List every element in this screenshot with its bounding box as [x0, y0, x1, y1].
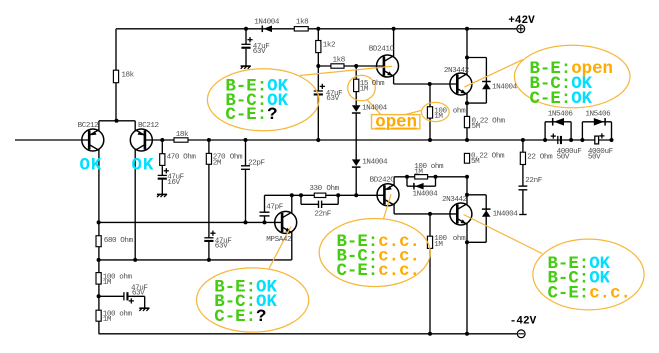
svg-text:1N4004: 1N4004	[493, 211, 519, 219]
svg-text:1M: 1M	[360, 86, 369, 94]
svg-text:1N4004: 1N4004	[413, 191, 439, 199]
svg-text:18k: 18k	[176, 131, 189, 139]
svg-text:OK: OK	[80, 157, 103, 176]
svg-text:-42V: -42V	[510, 315, 537, 327]
svg-text:OK: OK	[132, 157, 155, 176]
svg-text:BC212: BC212	[78, 122, 100, 130]
svg-text:22nF: 22nF	[314, 211, 331, 219]
svg-text:2N3442: 2N3442	[442, 196, 468, 204]
svg-text:Ohm: Ohm	[326, 185, 339, 193]
svg-text:63V: 63V	[215, 242, 228, 250]
svg-text:ohm: ohm	[453, 235, 466, 243]
svg-text:1M: 1M	[103, 279, 112, 287]
svg-text:63V: 63V	[253, 48, 266, 56]
svg-text:C-E:c.c.: C-E:c.c.	[548, 284, 632, 303]
svg-text:1k8: 1k8	[333, 56, 346, 64]
svg-text:680: 680	[104, 237, 117, 245]
svg-text:1N5406: 1N5406	[548, 111, 574, 119]
svg-text:22pF: 22pF	[248, 159, 265, 167]
svg-text:BC212: BC212	[138, 122, 160, 130]
svg-text:47pF: 47pF	[266, 204, 283, 212]
svg-text:C-E:?: C-E:?	[225, 106, 277, 125]
svg-text:5M: 5M	[471, 158, 480, 166]
svg-text:1k2: 1k2	[323, 41, 336, 49]
svg-text:1N4004: 1N4004	[362, 158, 388, 166]
svg-text:50V: 50V	[588, 153, 601, 161]
svg-text:1k8: 1k8	[296, 18, 309, 26]
svg-text:BD241C: BD241C	[369, 46, 395, 54]
svg-text:Ohm: Ohm	[540, 153, 553, 161]
svg-text:1M: 1M	[434, 113, 443, 121]
svg-text:open: open	[375, 114, 417, 133]
svg-text:330: 330	[309, 185, 322, 193]
svg-text:1M: 1M	[103, 316, 112, 324]
svg-text:63V: 63V	[326, 95, 339, 103]
svg-text:1M: 1M	[434, 241, 443, 249]
svg-text:BD242C: BD242C	[370, 177, 396, 185]
svg-text:Ohm: Ohm	[372, 80, 385, 88]
svg-text:Ohm: Ohm	[120, 237, 133, 245]
svg-text:1M: 1M	[414, 168, 423, 176]
svg-text:ohm: ohm	[453, 107, 466, 115]
svg-text:1N5406: 1N5406	[585, 111, 611, 119]
svg-text:18k: 18k	[121, 71, 134, 79]
svg-text:16V: 16V	[167, 179, 180, 187]
svg-text:5M: 5M	[472, 123, 481, 131]
svg-text:2M: 2M	[213, 159, 222, 167]
svg-text:22nF: 22nF	[525, 177, 542, 185]
svg-text:Ohm: Ohm	[230, 153, 243, 161]
svg-text:2N3442: 2N3442	[444, 67, 470, 75]
svg-text:63V: 63V	[132, 290, 145, 298]
svg-text:+42V: +42V	[508, 15, 535, 27]
svg-text:1N4004: 1N4004	[254, 19, 280, 27]
svg-text:C-E:c.c.: C-E:c.c.	[337, 262, 421, 281]
svg-text:MPSA42: MPSA42	[266, 236, 292, 244]
svg-text:1N4004: 1N4004	[492, 83, 518, 91]
svg-text:C-E:?: C-E:?	[214, 308, 266, 327]
svg-text:50V: 50V	[557, 153, 570, 161]
svg-text:C-E:OK: C-E:OK	[530, 90, 593, 109]
svg-text:1N4004: 1N4004	[362, 105, 388, 113]
svg-text:470 Ohm: 470 Ohm	[167, 154, 197, 162]
svg-text:22: 22	[527, 153, 536, 161]
